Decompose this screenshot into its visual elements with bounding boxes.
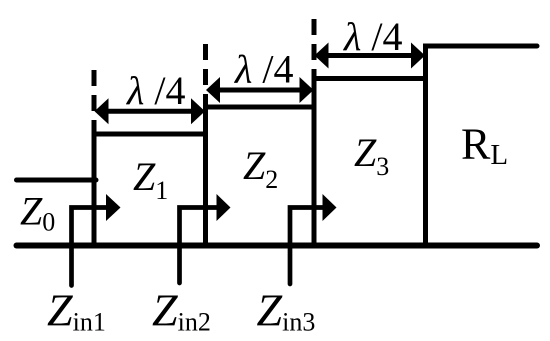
svg-text:Z3: Z3 [354,130,389,181]
section Z3 left edge [312,76,317,246]
svg-text:λ /4: λ /4 [126,68,185,113]
svg-text:λ /4: λ /4 [234,47,293,92]
dimension arrow lambda/4 over section Z1 [95,98,206,124]
dashed reference line above Z3 left edge [312,19,317,79]
svg-text:Zin2: Zin2 [152,285,211,337]
dashed reference line above Z1 left edge [92,70,97,134]
svg-text:Zin1: Zin1 [47,285,106,337]
svg-text:λ /4: λ /4 [343,14,402,59]
dimension arrow lambda/4 over section Z2 [206,77,314,103]
svg-text:Zin3: Zin3 [257,285,316,337]
section Z3 top edge [312,76,429,81]
wire: bottom ground conductor [17,243,538,249]
wire: load line top conductor [426,44,538,49]
section Z2 top edge [203,105,317,110]
dashed reference line above Z2 left edge [203,44,208,107]
impedance look-in arrow Zin1 (step + arrowhead + stub) [72,194,121,286]
impedance look-in arrow Zin2 (step + arrowhead + stub) [180,194,231,283]
load RL left edge [423,44,428,246]
section Z1 top edge [92,132,209,137]
svg-text:Z1: Z1 [133,154,168,205]
svg-text:Z2: Z2 [243,143,278,194]
dimension arrow lambda/4 over section Z3 [315,43,426,69]
section Z2 left edge [203,105,208,246]
wire: input feed line top conductor [17,178,97,183]
svg-text:Z0: Z0 [20,189,55,237]
section Z1 left edge [92,132,97,246]
svg-text:RL: RL [461,120,508,172]
impedance look-in arrow Zin3 (step + arrowhead + stub) [290,194,337,284]
